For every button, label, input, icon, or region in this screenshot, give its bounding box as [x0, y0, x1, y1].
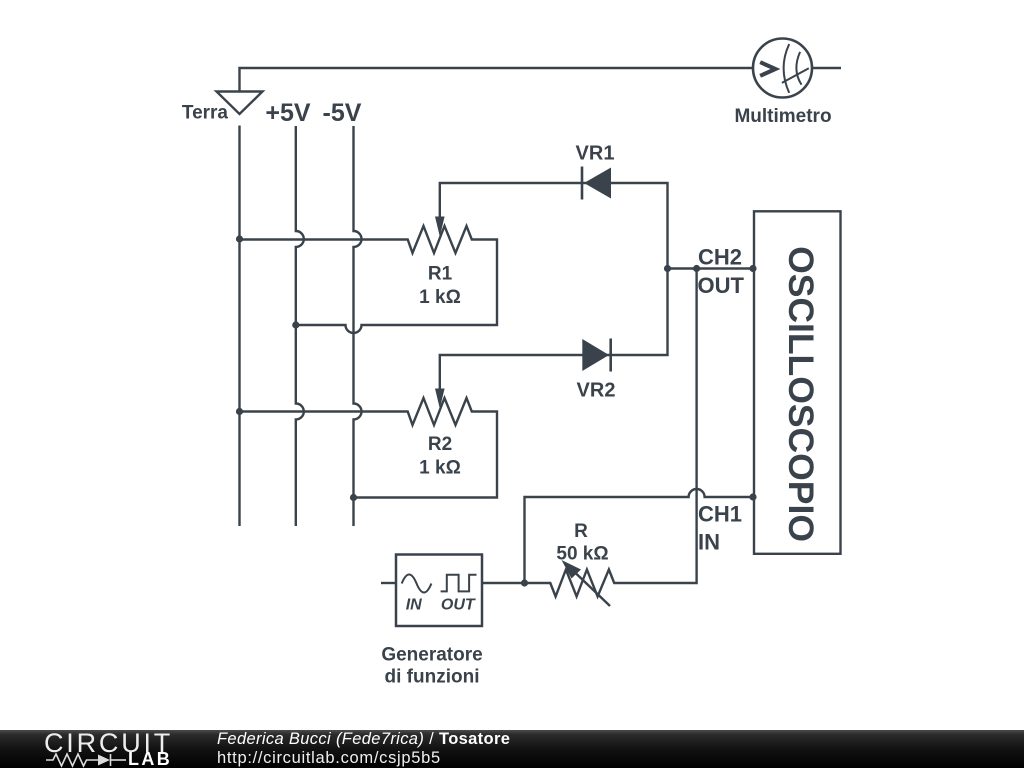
svg-text:CH1: CH1 [698, 502, 742, 527]
svg-text:Federica Bucci (Fede7rica) / T: Federica Bucci (Fede7rica) / Tosatore [217, 730, 510, 748]
svg-text:LAB: LAB [128, 749, 172, 768]
svg-text:di funzioni: di funzioni [385, 667, 480, 688]
svg-text:1 kΩ: 1 kΩ [419, 458, 461, 479]
svg-text:OSCILLOSCOPIO: OSCILLOSCOPIO [781, 246, 821, 542]
svg-text:50 kΩ: 50 kΩ [556, 544, 608, 565]
svg-text:R2: R2 [428, 434, 452, 455]
svg-text:Multimetro: Multimetro [734, 106, 831, 127]
svg-text:OUT: OUT [698, 273, 745, 298]
svg-text:R1: R1 [428, 264, 453, 285]
svg-text:-5V: -5V [323, 99, 362, 127]
svg-text:CH2: CH2 [698, 245, 742, 270]
svg-text:VR2: VR2 [577, 380, 616, 402]
svg-text:http://circuitlab.com/csjp5b5: http://circuitlab.com/csjp5b5 [217, 749, 441, 767]
svg-text:IN: IN [698, 530, 720, 555]
svg-text:1 kΩ: 1 kΩ [419, 287, 461, 308]
svg-text:R: R [574, 521, 588, 542]
svg-text:VR1: VR1 [576, 143, 615, 165]
svg-text:+5V: +5V [265, 99, 311, 127]
svg-text:IN: IN [406, 597, 422, 614]
svg-text:OUT: OUT [441, 597, 476, 614]
svg-text:Generatore: Generatore [381, 645, 482, 666]
svg-text:Terra: Terra [182, 103, 229, 124]
